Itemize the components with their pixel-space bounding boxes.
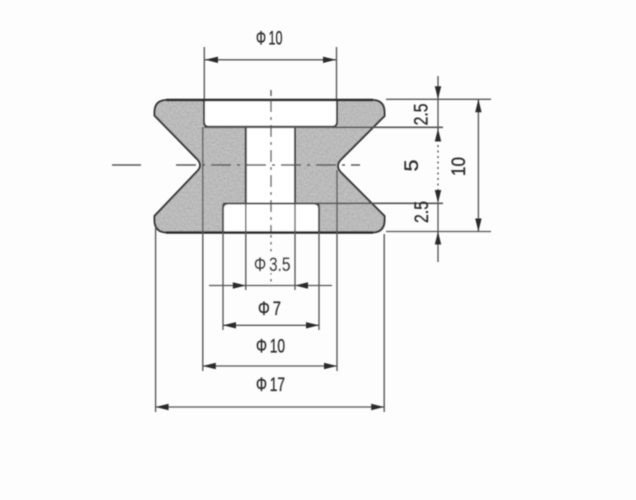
svg-text:5: 5	[401, 159, 423, 171]
svg-text:Φ 10: Φ 10	[256, 28, 283, 50]
svg-text:Φ 3.5: Φ 3.5	[254, 254, 290, 276]
svg-text:Φ 10: Φ 10	[256, 336, 285, 358]
svg-text:Φ 7: Φ 7	[258, 298, 281, 320]
svg-text:Φ 17: Φ 17	[256, 374, 285, 396]
svg-text:10: 10	[448, 157, 470, 176]
svg-text:2.5: 2.5	[411, 201, 433, 223]
svg-text:2.5: 2.5	[411, 103, 433, 125]
